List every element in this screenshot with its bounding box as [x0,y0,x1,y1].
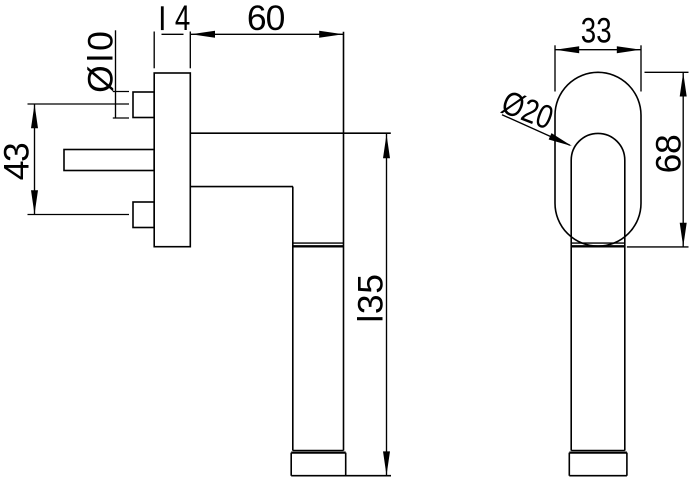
grip top ring line 2 [293,245,344,247]
grip top ring line 1 [293,242,344,244]
dim 43 top extension line [28,103,130,105]
arrow 43 up [31,104,38,128]
grip end cap front top edge [569,452,627,454]
svg-text:Øl0: Øl0 [80,28,120,93]
arrow 33 left [555,46,579,53]
rosette front view (stadium) [555,72,641,246]
svg-text:60: 60 [247,0,285,38]
arrow 43 down [31,190,38,214]
dim O20 leader line [502,115,570,146]
top mounting peg [133,92,154,118]
dim 43 line [34,104,36,215]
svg-text:Ø20: Ø20 [497,84,559,137]
dim 43 bottom extension line [28,214,130,216]
dim 68 line [682,73,684,247]
neck front view (inverted U) and grip sides [571,133,625,450]
dim 135 line [386,134,388,476]
handle arm bottom edge [190,186,293,188]
grip bottom ring line [293,449,344,451]
svg-text:33: 33 [581,10,612,50]
arrow O20 leader [549,133,574,149]
dim O10 tick top [113,91,129,93]
spindle bar [64,150,154,171]
arrow 135 down [383,451,390,475]
grip front top ring line 2 [571,245,625,247]
dim 60 line [191,33,343,35]
dim O10 vertical extension line [115,30,117,118]
cap bottom edge with 135 extension [291,475,391,477]
svg-text:43: 43 [0,143,36,180]
dim 33 left extension line [554,45,556,91]
svg-text:68: 68 [648,135,688,174]
arrow 33 right [617,46,641,53]
arrow 68 up [680,73,687,97]
grip end cap side view [291,453,346,476]
label 14 digit 1 bar [161,6,164,30]
arrow 60 left [191,31,215,38]
grip front bottom ring line [571,449,625,451]
handle arm top edge with 135 extension [190,132,390,134]
neck and grip left edge [292,187,294,451]
dim O10 tick bottom [113,117,129,119]
svg-text:l35: l35 [351,273,391,322]
dim 33 line [555,49,641,51]
arrow 68 down [680,223,687,247]
grip front top ring line 1 [571,242,625,244]
dim 14 right extension line [189,32,191,69]
dim 68 bottom extension line [627,246,689,248]
dim 14 line [162,33,184,35]
bottom mounting peg [133,202,154,228]
dim 33 right extension line [640,45,642,91]
dim 68 top extension line [645,71,689,73]
arrow 135 up [383,134,390,158]
rosette plate side view [154,73,190,247]
grip end cap front view [569,453,627,476]
dim 14 left extension line [153,32,155,69]
cap front bottom edge [569,475,627,477]
svg-text:4: 4 [175,0,190,38]
grip end cap top edge [291,452,346,454]
arrow 60 right [319,31,343,38]
handle right edge (60 ext + arm + neck + grip) [343,32,345,451]
